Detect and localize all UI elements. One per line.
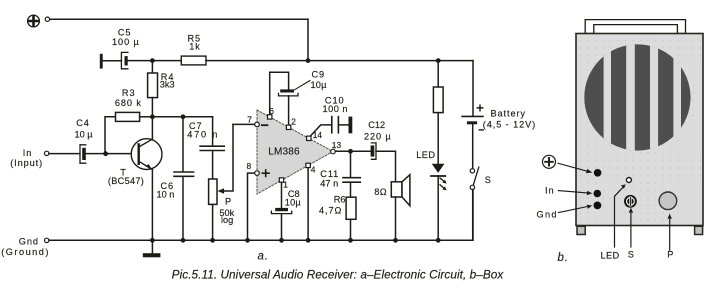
label R6 value <box>319 194 346 215</box>
box b: terminal dot In <box>594 190 602 198</box>
wire supply drop to V+ node <box>307 19 309 60</box>
svg-text:3k3: 3k3 <box>160 80 175 90</box>
label C4 value <box>74 118 93 139</box>
wire R5 left lead <box>152 60 181 62</box>
resistor R6 <box>346 197 356 240</box>
ground symbol <box>143 240 161 257</box>
svg-text:LED: LED <box>601 250 620 260</box>
pin 1 <box>279 178 283 182</box>
box b: LED hole <box>626 178 631 183</box>
svg-text:6: 6 <box>269 106 274 116</box>
svg-text:a.: a. <box>258 251 269 263</box>
wire collector up <box>151 117 153 139</box>
box b: right foot <box>695 226 703 234</box>
label Battery text <box>483 109 536 130</box>
node junction R3/R4/collector <box>150 114 155 119</box>
box b: speaker grille <box>584 40 690 155</box>
battery <box>462 116 483 167</box>
box b: left foot <box>577 226 585 234</box>
svg-text:Pic.5.11. Universal Audio Rece: Pic.5.11. Universal Audio Receiver: a–El… <box>172 268 505 282</box>
box b: arrow to Gnd terminal <box>559 205 593 213</box>
label C10 value <box>323 95 349 113</box>
box b: pointer to S <box>629 208 633 247</box>
svg-text:C12: C12 <box>368 120 385 130</box>
capacitor C11 <box>343 151 360 197</box>
capacitor C6 <box>174 117 194 241</box>
svg-text:(4,5 - 12V): (4,5 - 12V) <box>483 120 536 130</box>
pin 13 output <box>331 149 336 154</box>
svg-text:2: 2 <box>291 117 296 127</box>
capacitor C7 <box>200 117 224 179</box>
switch S <box>470 167 479 240</box>
supply + terminal symbol <box>28 15 40 27</box>
pin 6 <box>268 115 272 119</box>
svg-text:Gnd: Gnd <box>19 237 39 247</box>
svg-text:8: 8 <box>247 161 252 171</box>
svg-text:R3: R3 <box>122 88 136 98</box>
capacitor C4 <box>80 145 86 163</box>
LED series resistor <box>433 61 443 164</box>
label C12 value <box>364 120 392 142</box>
wire pin1 to C8 <box>281 182 283 208</box>
wire V+ rail to battery <box>206 60 473 62</box>
wire pin4 to ground <box>307 168 309 241</box>
wire top supply rail <box>50 18 308 20</box>
label C9 value with pointer <box>311 69 328 90</box>
transistor T (BC547) <box>131 139 162 170</box>
capacitor C9 <box>279 89 299 125</box>
box b: supply terminal symbol <box>543 155 556 168</box>
svg-text:4: 4 <box>311 164 316 174</box>
supply + terminal pin <box>45 17 49 21</box>
svg-text:C4: C4 <box>76 118 90 128</box>
wire pin7 to pot wiper <box>233 123 255 125</box>
wire C9 label pointer <box>295 81 311 90</box>
label R3 <box>115 88 142 108</box>
pin 14 <box>307 136 311 140</box>
svg-text:100 µ: 100 µ <box>112 37 140 47</box>
box b: pot knob P <box>659 192 677 210</box>
svg-text:10µ: 10µ <box>285 197 302 207</box>
svg-text:(BC547): (BC547) <box>108 176 144 186</box>
wire input lead <box>49 153 80 155</box>
svg-text:100 n: 100 n <box>323 104 349 114</box>
Gnd terminal pin <box>45 238 49 242</box>
resistor R3 <box>105 112 152 153</box>
svg-text:b.: b. <box>558 252 569 264</box>
pin 7 <box>255 122 260 127</box>
op-amp minus sign pin7 <box>262 124 268 126</box>
svg-text:P: P <box>667 249 674 259</box>
LED emission arrows <box>440 178 447 190</box>
wire pin6 loop to C9 <box>270 72 289 114</box>
label Gnd (Ground) <box>1 237 50 258</box>
wire output <box>335 150 370 152</box>
svg-text:470 n: 470 n <box>187 129 219 139</box>
svg-text:In: In <box>545 185 554 195</box>
svg-text:47 n: 47 n <box>320 178 338 188</box>
label P 50k log <box>219 196 234 225</box>
wire C4 to base <box>86 153 132 155</box>
label C5 value <box>112 28 140 47</box>
resistor R5 <box>181 56 206 65</box>
node output junction <box>348 149 353 154</box>
svg-text:log: log <box>221 215 233 225</box>
box b: switch S knob <box>624 195 637 208</box>
label R5 <box>188 33 202 51</box>
svg-text:220 µ: 220 µ <box>364 131 392 141</box>
box b: terminal dot + <box>594 169 602 177</box>
svg-text:S: S <box>485 175 492 185</box>
node junction base/R3 <box>103 151 108 156</box>
svg-text:P: P <box>225 196 232 206</box>
label C11 value <box>320 169 339 188</box>
svg-text:R6: R6 <box>334 194 346 204</box>
svg-text:(Ground): (Ground) <box>1 247 50 257</box>
capacitor C5 ground stub bar <box>100 54 103 69</box>
node junction V+ / LM386 supply <box>306 58 311 63</box>
pin 4 <box>306 163 310 167</box>
svg-text:C9: C9 <box>312 69 326 79</box>
label C7 value <box>187 121 219 140</box>
svg-text:680 k: 680 k <box>115 98 142 108</box>
LED <box>431 164 445 241</box>
label In (Input) <box>10 148 43 168</box>
svg-text:LED: LED <box>416 150 435 160</box>
wire emitter down <box>151 170 153 241</box>
node V+ junction at C5/R4/R5 <box>150 58 155 63</box>
speaker 8 ohm <box>391 175 410 241</box>
wire battery + drop <box>472 61 474 117</box>
capacitor C8 <box>271 208 291 240</box>
pin 8 <box>255 171 260 176</box>
wire ground rail <box>49 190 473 241</box>
box b: terminal dot Gnd <box>594 202 602 210</box>
capacitor C10 <box>332 117 353 134</box>
node ground junctions <box>150 238 441 243</box>
svg-text:In: In <box>23 148 32 158</box>
label battery + <box>477 105 482 110</box>
svg-text:8Ω: 8Ω <box>374 187 387 197</box>
label T (BC547) <box>108 168 144 186</box>
svg-text:4,7Ω: 4,7Ω <box>319 206 342 216</box>
capacitor C12 <box>371 143 396 182</box>
op-amp plus sign pin8 <box>262 170 269 177</box>
svg-text:1: 1 <box>283 180 288 190</box>
svg-text:(Input): (Input) <box>10 158 43 168</box>
svg-text:Battery: Battery <box>491 109 526 119</box>
node junction V+ / LED branch <box>436 58 441 63</box>
box b: handle <box>585 20 685 34</box>
box b: enclosure <box>576 34 703 226</box>
box b: arrow to + terminal <box>558 163 592 173</box>
svg-text:10 µ: 10 µ <box>74 129 93 139</box>
label C6 value <box>157 181 175 200</box>
svg-text:14: 14 <box>313 130 323 140</box>
box b: arrow to In terminal <box>559 191 593 196</box>
label battery - <box>479 129 483 131</box>
op-amp U1 LM386 <box>257 110 333 194</box>
wire C5 right lead <box>128 60 153 62</box>
svg-text:13: 13 <box>332 140 342 150</box>
svg-text:Gnd: Gnd <box>537 209 558 219</box>
label R4 <box>160 72 175 89</box>
wire pin14 to C10 <box>310 125 332 137</box>
box b: pointer to P <box>668 214 672 250</box>
svg-text:1k: 1k <box>189 42 201 52</box>
In terminal pin <box>45 151 49 155</box>
capacitor C5 <box>121 52 128 68</box>
pin 2 <box>286 125 290 129</box>
potentiometer P 50k log <box>209 124 233 240</box>
label C8 value <box>285 189 302 207</box>
svg-text:10µ: 10µ <box>311 80 328 90</box>
wire node to C6/C7 <box>152 116 212 118</box>
resistor R4 <box>148 61 158 117</box>
svg-text:S: S <box>628 250 635 260</box>
svg-text:10 n: 10 n <box>157 189 175 199</box>
node junction C6 tap <box>181 114 186 119</box>
svg-text:LM386: LM386 <box>268 146 300 157</box>
svg-text:7: 7 <box>247 115 252 125</box>
wire pin8 to ground <box>248 173 255 240</box>
wire C5 left lead <box>103 60 122 62</box>
box b: pointer to LED <box>615 184 626 247</box>
